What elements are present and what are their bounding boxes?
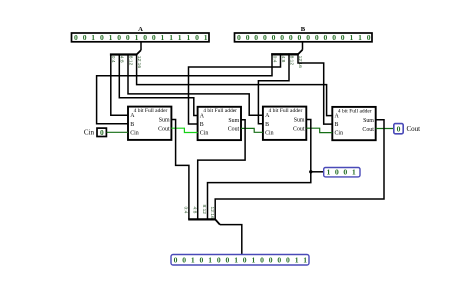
- wire A[4:8] from splitter SA to adder U2 port A: [119, 54, 197, 116]
- svg-text:0: 0: [298, 33, 302, 42]
- svg-text:B: B: [200, 122, 204, 128]
- 4-bit full adder subcircuit U2: [198, 107, 241, 140]
- svg-text:1: 1: [326, 168, 330, 177]
- svg-text:0:4: 0:4: [183, 207, 189, 214]
- svg-text:0: 0: [289, 33, 293, 42]
- junction node on U3 Sum net feeding probe: [309, 170, 312, 173]
- splitter SA for input A (16-bit to 4x4): [110, 42, 141, 55]
- svg-text:1: 1: [161, 33, 165, 42]
- svg-text:0: 0: [324, 33, 328, 42]
- svg-text:Cin: Cin: [265, 130, 274, 136]
- svg-text:Sum: Sum: [294, 118, 305, 124]
- svg-text:0: 0: [315, 33, 319, 42]
- svg-text:1: 1: [358, 33, 362, 42]
- svg-text:Sum: Sum: [159, 118, 170, 124]
- svg-text:Cout: Cout: [293, 127, 305, 133]
- wire Sum of adder U4 to combiner leg 12:16: [215, 120, 384, 220]
- svg-text:Cout: Cout: [228, 127, 240, 133]
- splitter SB for input B (16-bit to 4x4): [271, 42, 302, 55]
- svg-text:0: 0: [182, 256, 186, 265]
- svg-text:A: A: [265, 113, 270, 119]
- wire B[8:12] from splitter SB to adder U3 port B: [258, 53, 289, 123]
- svg-text:0: 0: [100, 128, 104, 137]
- 4-bit full adder subcircuit U4: [332, 107, 375, 140]
- wire A[12:16] from splitter SA to adder U4 port A: [137, 54, 333, 116]
- svg-text:1: 1: [169, 33, 173, 42]
- svg-text:1: 1: [295, 256, 299, 265]
- svg-text:0: 0: [397, 125, 401, 134]
- svg-text:0: 0: [280, 33, 284, 42]
- svg-text:A: A: [200, 113, 205, 119]
- probe (4-bit) displaying 1001: [324, 168, 360, 177]
- svg-text:0: 0: [243, 256, 247, 265]
- output pin Cout (1-bit) value 0: [394, 124, 420, 134]
- svg-text:1: 1: [303, 256, 307, 265]
- output pin S (16-bit) value 0010100101000011: [171, 255, 309, 266]
- svg-text:0: 0: [332, 33, 336, 42]
- svg-text:0: 0: [143, 33, 147, 42]
- svg-text:1: 1: [350, 33, 354, 42]
- svg-text:0: 0: [174, 256, 178, 265]
- svg-text:0: 0: [100, 33, 104, 42]
- wire Sum of adder U2 to combiner leg 4:8: [198, 120, 245, 220]
- svg-text:0: 0: [226, 256, 230, 265]
- svg-text:4 bit Full adder: 4 bit Full adder: [134, 108, 168, 114]
- svg-text:1: 1: [352, 168, 356, 177]
- svg-text:Cout: Cout: [362, 127, 374, 133]
- wire stub from U3 Sum net to probe: [311, 171, 324, 173]
- svg-text:0: 0: [126, 33, 130, 42]
- wire carry adder U3 Cout to adder U4 Cin (0, dark green): [306, 128, 332, 132]
- wire carry adder U4 Cout to output pin Cout (0, dark green): [376, 128, 394, 130]
- wire carry adder U2 Cout to adder U3 Cin (0, dark green): [241, 128, 263, 132]
- svg-text:Cout: Cout: [158, 127, 170, 133]
- svg-text:1: 1: [191, 256, 195, 265]
- svg-text:0: 0: [246, 33, 250, 42]
- svg-text:1: 1: [204, 33, 208, 42]
- svg-text:0: 0: [83, 33, 87, 42]
- 4-bit full adder subcircuit U3: [263, 107, 306, 140]
- svg-text:Cin: Cin: [84, 129, 95, 137]
- svg-text:1: 1: [109, 33, 113, 42]
- svg-text:0: 0: [117, 33, 121, 42]
- wire B[4:8] from splitter SB to adder U2 port B: [189, 53, 281, 124]
- svg-text:1: 1: [208, 256, 212, 265]
- svg-text:1: 1: [135, 33, 139, 42]
- svg-text:0: 0: [217, 256, 221, 265]
- svg-text:B: B: [301, 26, 306, 33]
- svg-text:B: B: [335, 122, 339, 128]
- input pin A (16-bit) value 0010100100111101: [72, 26, 210, 42]
- svg-text:0: 0: [272, 33, 276, 42]
- svg-text:Sum: Sum: [228, 118, 239, 124]
- svg-text:0: 0: [277, 256, 281, 265]
- svg-text:B: B: [130, 122, 134, 128]
- svg-text:0: 0: [237, 33, 241, 42]
- svg-text:A: A: [335, 114, 340, 120]
- svg-text:0: 0: [200, 256, 204, 265]
- wire A[8:12] from splitter SA to adder U3 port A: [128, 54, 263, 116]
- svg-text:0: 0: [263, 33, 267, 42]
- svg-text:B: B: [265, 122, 269, 128]
- svg-text:0: 0: [260, 256, 264, 265]
- svg-text:12:16: 12:16: [209, 207, 215, 220]
- wire carry adder U1 Cout to adder U2 Cin (1, bright green): [171, 128, 197, 132]
- wire carry Cin pin to adder U1 Cin (0, dark green): [107, 131, 129, 133]
- svg-text:1: 1: [91, 33, 95, 42]
- svg-text:0: 0: [367, 33, 371, 42]
- svg-text:Sum: Sum: [363, 118, 374, 124]
- wire B[12:16] from splitter SB to adder U4 port B: [298, 53, 332, 124]
- svg-text:Cin: Cin: [335, 131, 344, 137]
- svg-text:0: 0: [269, 256, 273, 265]
- svg-text:0: 0: [335, 168, 339, 177]
- svg-text:A: A: [138, 26, 143, 33]
- svg-text:1: 1: [234, 256, 238, 265]
- svg-text:4 bit Full adder: 4 bit Full adder: [203, 108, 237, 114]
- svg-text:0: 0: [195, 33, 199, 42]
- svg-text:0: 0: [254, 33, 258, 42]
- svg-text:A: A: [130, 113, 135, 119]
- svg-text:0: 0: [341, 33, 345, 42]
- svg-text:0: 0: [306, 33, 310, 42]
- svg-text:Cin: Cin: [200, 131, 209, 137]
- svg-text:1: 1: [252, 256, 256, 265]
- combiner splitter SC (4x4 to 16-bit): [188, 219, 220, 224]
- wire A[0:4] from splitter SA to adder U1 port A: [111, 54, 128, 116]
- svg-text:0: 0: [152, 33, 156, 42]
- svg-text:8:12: 8:12: [201, 205, 207, 215]
- input pin Cin (1-bit) value 0: [84, 128, 107, 137]
- svg-text:Cin: Cin: [130, 130, 139, 136]
- svg-text:4 bit Full adder: 4 bit Full adder: [269, 108, 303, 114]
- input pin B (16-bit) value 0000000000000110: [235, 26, 373, 42]
- svg-text:1: 1: [187, 33, 191, 42]
- svg-text:0: 0: [286, 256, 290, 265]
- wire B[0:4] from splitter SB to adder U1 port B: [97, 53, 272, 123]
- wire 16-bit result from combiner SC to output pin S: [220, 225, 242, 255]
- svg-text:0: 0: [343, 168, 347, 177]
- svg-text:4 bit Full adder: 4 bit Full adder: [338, 108, 372, 114]
- wire Sum of adder U1 to combiner leg 0:4: [171, 120, 189, 220]
- svg-text:0: 0: [74, 33, 78, 42]
- svg-text:1: 1: [178, 33, 182, 42]
- wire Sum of adder U3 to combiner leg 8:12: [208, 120, 311, 220]
- svg-text:Cout: Cout: [407, 125, 421, 133]
- 4-bit full adder subcircuit U1: [128, 107, 171, 140]
- svg-text:4:8: 4:8: [191, 207, 197, 214]
